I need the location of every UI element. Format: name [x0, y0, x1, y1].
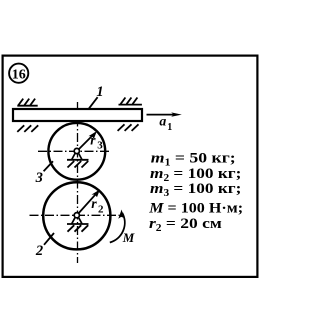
given data text line r2: [149, 214, 222, 234]
given data text line M: [148, 200, 243, 217]
label 2 leader line: [44, 233, 54, 245]
given data text line m2: [150, 165, 241, 184]
cylinder 2 (lower disk): [43, 182, 110, 249]
support hatching top-right: [119, 98, 142, 105]
horizontal centerline of cylinder 3: [38, 150, 109, 152]
cylinder 3 (upper disk): [48, 123, 105, 180]
radius arrow r2: [77, 189, 100, 215]
support hatching top-left: [17, 99, 37, 106]
label 3 leader line: [44, 161, 53, 171]
label r2: [91, 197, 104, 216]
svg-text:r: r: [90, 132, 96, 147]
label r3: [90, 132, 103, 151]
acceleration arrow a1: [147, 112, 182, 116]
svg-text:1: 1: [96, 84, 103, 100]
svg-text:3: 3: [35, 170, 43, 186]
moment arc arrow M: [110, 210, 125, 243]
svg-text:2: 2: [35, 243, 43, 259]
svg-text:3: 3: [97, 140, 103, 152]
svg-text:M: M: [122, 230, 135, 245]
label M: [122, 230, 135, 245]
horizontal centerline of cylinder 2: [30, 214, 120, 216]
label a1: [159, 114, 172, 134]
svg-text:1: 1: [167, 122, 172, 133]
label 3: [35, 170, 43, 186]
svg-text:r: r: [91, 197, 97, 212]
beam (plank) body 1: [13, 109, 142, 121]
pin support of cylinder 3: [67, 148, 89, 167]
label 1 leader line: [89, 97, 98, 108]
frame border: [3, 56, 258, 277]
vertical centerline through cylinders: [77, 102, 79, 263]
radius arrow r3: [77, 131, 97, 151]
support hatching bottom-left: [17, 125, 38, 132]
given data text line m1: [151, 148, 236, 168]
given data text line m3: [150, 180, 241, 199]
svg-text:a: a: [159, 114, 166, 129]
svg-text:16: 16: [12, 67, 26, 82]
pin support of cylinder 2: [67, 213, 89, 232]
label 1: [96, 84, 103, 100]
badge number 16: [9, 64, 28, 83]
support hatching bottom-right: [118, 124, 139, 131]
label 2: [35, 243, 43, 259]
svg-text:2: 2: [98, 204, 104, 216]
